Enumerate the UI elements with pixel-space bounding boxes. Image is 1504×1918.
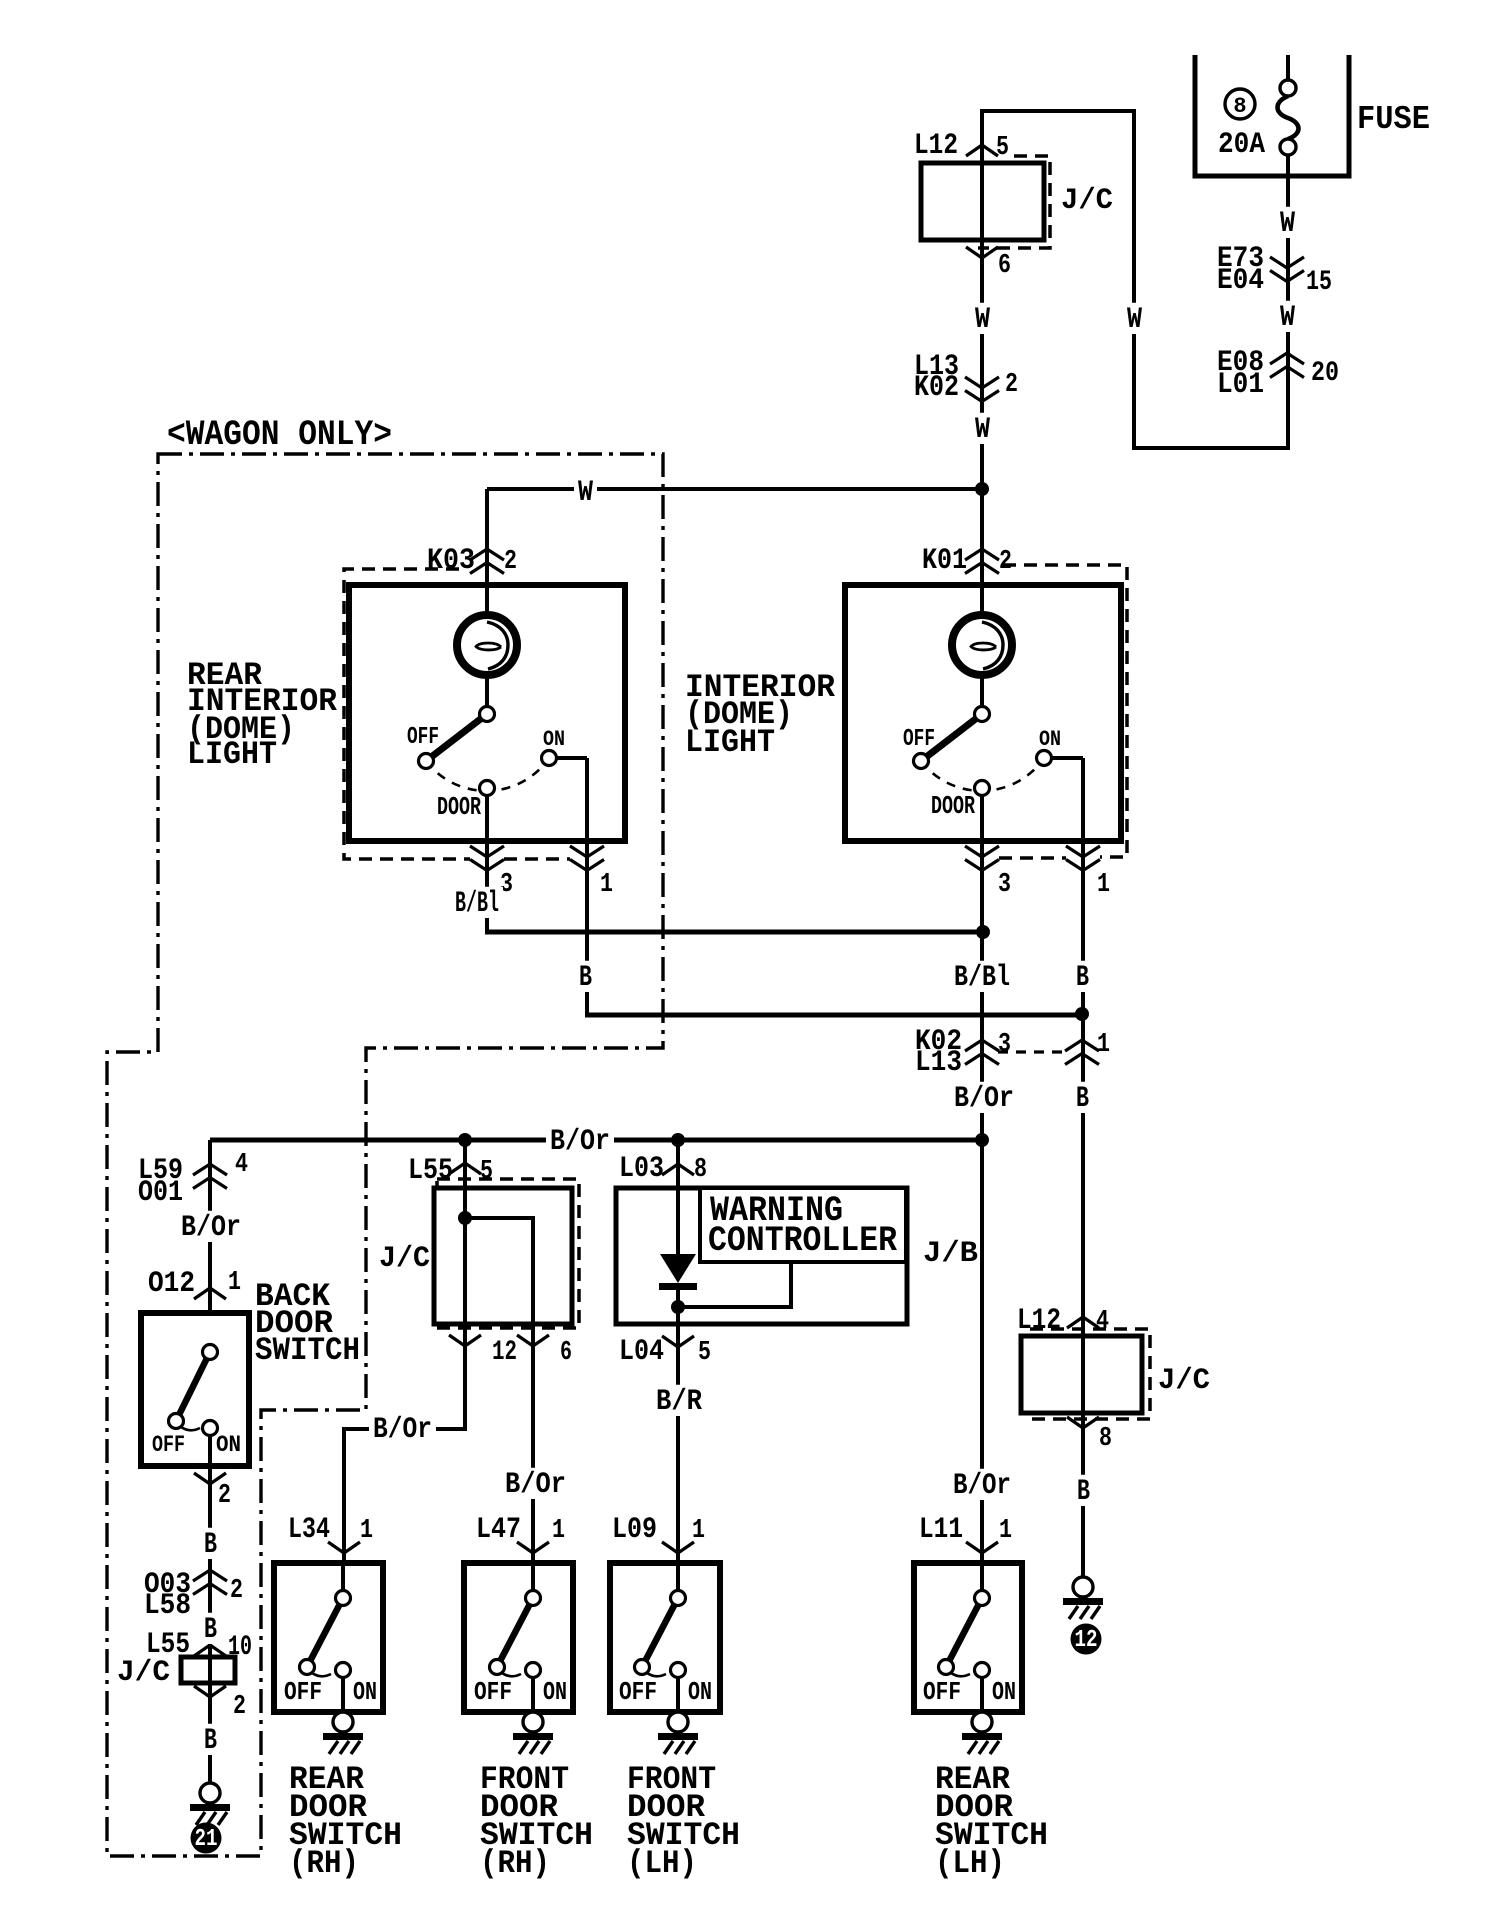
wire L55 branch drop <box>463 1140 467 1324</box>
node: B/Or junction at L55 <box>458 1133 472 1147</box>
svg-text:OFF: OFF <box>407 724 439 751</box>
wire L55 pin12 to L34 <box>344 1324 465 1563</box>
switch inside front door switch LH <box>642 1598 678 1667</box>
wire L03 branch drop <box>676 1140 680 1256</box>
wire label W (fuse lower) <box>1276 301 1299 332</box>
svg-text:2: 2 <box>233 1692 246 1722</box>
svg-text:(RH): (RH) <box>289 1845 359 1882</box>
svg-text:2: 2 <box>1005 370 1018 400</box>
svg-text:CONTROLLER: CONTROLLER <box>708 1221 897 1261</box>
svg-text:1: 1 <box>552 1516 565 1546</box>
svg-text:ON: ON <box>543 727 565 752</box>
J/C junction box (right, L12) <box>1021 1336 1142 1413</box>
connector L04 pin 5 chevron <box>662 1336 694 1347</box>
wire diode to L09 <box>676 1283 680 1563</box>
svg-text:ON: ON <box>216 1432 241 1458</box>
svg-text:3: 3 <box>998 870 1011 900</box>
svg-text:FUSE: FUSE <box>1357 101 1430 138</box>
switch inside K01 (OFF/ON/DOOR) <box>921 758 1044 791</box>
svg-text:LIGHT: LIGHT <box>187 736 277 773</box>
wagon-only dash-dot boundary <box>107 454 663 1856</box>
svg-text:1: 1 <box>600 870 613 900</box>
wire label B/Or (bus) <box>546 1125 614 1156</box>
svg-text:8: 8 <box>694 1155 707 1185</box>
wire label B (K03 pin1) <box>575 961 596 992</box>
wire pin1 K03 down <box>585 758 589 1017</box>
rear door switch LH box <box>914 1563 1022 1712</box>
svg-text:B: B <box>204 1528 217 1562</box>
svg-text:B/R: B/R <box>656 1385 702 1419</box>
svg-text:L11: L11 <box>919 1513 963 1547</box>
svg-text:OFF: OFF <box>923 1677 961 1707</box>
svg-text:4: 4 <box>235 1150 248 1180</box>
svg-text:L03: L03 <box>619 1152 664 1186</box>
svg-text:L09: L09 <box>612 1513 657 1547</box>
wire label B <box>1072 1082 1093 1113</box>
wire label W (right drop) <box>1123 303 1146 334</box>
wire bulb K03 to switch <box>485 676 489 710</box>
ground (rear door switch RH) <box>333 1712 353 1732</box>
svg-text:1: 1 <box>228 1268 241 1298</box>
svg-text:J/C: J/C <box>379 1242 430 1276</box>
svg-text:OFF: OFF <box>152 1432 185 1458</box>
connector L12 pin 5 chevron <box>966 145 998 156</box>
svg-text:B/Or: B/Or <box>550 1125 610 1159</box>
wire label B/Bl (K03) <box>451 887 503 918</box>
svg-text:L58: L58 <box>144 1589 191 1623</box>
wire B right vertical to ground 12 <box>1081 758 1085 1577</box>
svg-text:2: 2 <box>504 547 517 577</box>
front door switch LH box <box>610 1563 720 1712</box>
switch inside rear door switch LH <box>946 1598 982 1667</box>
wire W branch to K03 <box>487 487 984 491</box>
svg-text:W: W <box>975 413 990 447</box>
wire B/Or bus <box>210 1138 982 1143</box>
wire label B/Or <box>950 1082 1018 1113</box>
fuse number circle 8 <box>1225 89 1255 119</box>
svg-text:J/C: J/C <box>117 1656 170 1690</box>
svg-text:L01: L01 <box>1217 368 1264 402</box>
svg-text:O12: O12 <box>148 1267 195 1301</box>
connector L55 pin 2 chevron <box>194 1686 226 1697</box>
wire label B/Bl (K01) <box>950 961 1014 992</box>
svg-text:W: W <box>1280 301 1295 335</box>
svg-text:1: 1 <box>360 1516 373 1546</box>
connector K01 pin3-pin1 dashed link <box>999 856 1066 860</box>
node: B/Or junction at L03 <box>671 1133 685 1147</box>
svg-text:20: 20 <box>1311 358 1339 389</box>
svg-text:B: B <box>1076 1082 1089 1116</box>
wire fuse top stub <box>1286 55 1290 80</box>
node: junction inside L55 J/C <box>458 1211 472 1225</box>
svg-text:W: W <box>975 303 990 337</box>
connector K02/L13 pin 1 chevron <box>1065 1040 1099 1051</box>
fuse box outline <box>1195 55 1349 176</box>
svg-text:21: 21 <box>195 1826 218 1853</box>
back door switch box O12 <box>141 1313 249 1466</box>
wire label B (2) <box>200 1613 221 1644</box>
J/B warning controller outer box <box>616 1188 907 1324</box>
connector L11 pin 1 chevron <box>966 1542 998 1553</box>
svg-text:B/Or: B/Or <box>953 1469 1011 1503</box>
svg-text:15: 15 <box>1306 267 1332 298</box>
svg-text:ON: ON <box>1039 727 1061 752</box>
svg-text:(RH): (RH) <box>480 1845 550 1882</box>
connector L55 pin 6 chevron <box>517 1335 549 1346</box>
wire label B (1) <box>200 1528 221 1559</box>
wire label W <box>971 303 994 334</box>
wire K03 ON contact to pin 1 <box>549 756 587 760</box>
connector L55 pin 5 chevron <box>449 1163 481 1174</box>
J/C junction box (L55) <box>434 1188 572 1324</box>
connector K03 pin 3 chevron <box>470 846 504 857</box>
connector K01 dashed outline <box>1003 565 1127 857</box>
wire B/Bl horizontal <box>485 930 983 935</box>
wire label W (fuse top) <box>1276 207 1299 238</box>
wire K01 ON contact to pin 1 <box>1044 756 1083 760</box>
svg-text:OFF: OFF <box>619 1677 657 1707</box>
wire rear door switch RH internals top <box>341 1563 345 1594</box>
svg-text:1: 1 <box>1097 1030 1110 1060</box>
wire label B/Or (L47) <box>501 1468 570 1499</box>
wire front door switch RH internals top <box>531 1563 535 1594</box>
connector O03/L58 pin 2 chevron <box>193 1570 227 1581</box>
svg-text:8: 8 <box>1099 1424 1112 1454</box>
interior dome light box K01 <box>845 585 1121 841</box>
diode inside warning controller <box>660 1254 696 1283</box>
svg-text:(LH): (LH) <box>627 1845 697 1882</box>
svg-text:L12: L12 <box>914 129 958 163</box>
node: B/Bl junction <box>976 925 990 939</box>
connector L55 pin 10 chevron <box>194 1645 226 1656</box>
svg-text:6: 6 <box>998 251 1011 281</box>
wire warning controller internal <box>678 1264 791 1307</box>
svg-text:DOOR: DOOR <box>931 791 975 821</box>
connector K03 pin 1 chevron <box>570 846 604 857</box>
wire front door switch LH to ground <box>676 1674 680 1712</box>
svg-text:LIGHT: LIGHT <box>685 724 775 761</box>
rear interior dome light box K03 <box>349 585 625 841</box>
switch inside back door switch O12 <box>176 1352 210 1421</box>
svg-text:K01: K01 <box>922 544 967 578</box>
svg-text:W: W <box>1280 207 1295 241</box>
svg-text:ON: ON <box>688 1677 712 1707</box>
node: B junction right <box>1075 1007 1089 1021</box>
svg-text:DOOR: DOOR <box>437 792 481 822</box>
wire label B (K01 pin1) <box>1072 961 1093 992</box>
front door switch RH box <box>464 1563 573 1712</box>
svg-text:12: 12 <box>1075 1627 1098 1654</box>
svg-text:SWITCH: SWITCH <box>255 1332 360 1369</box>
connector L47 pin 1 chevron <box>517 1542 549 1553</box>
svg-text:B/Or: B/Or <box>181 1211 241 1245</box>
svg-text:4: 4 <box>1096 1307 1109 1337</box>
svg-text:B: B <box>204 1613 217 1647</box>
svg-text:L13: L13 <box>915 1046 962 1080</box>
svg-text:2: 2 <box>999 547 1012 577</box>
svg-text:J/C: J/C <box>1061 184 1113 218</box>
svg-text:L04: L04 <box>619 1335 664 1369</box>
wire label B/Or (L11) <box>949 1469 1015 1500</box>
wire label B/Or (L34) <box>369 1413 436 1444</box>
wire front door switch LH internals top <box>676 1563 680 1594</box>
connector K03 pin3-pin1 dashed link <box>504 857 570 861</box>
svg-text:1: 1 <box>692 1516 705 1546</box>
connector K01 pin 2 chevron <box>965 549 999 560</box>
svg-text:E04: E04 <box>1217 264 1264 298</box>
ground point 21 <box>200 1783 220 1803</box>
connector L12 pin 4 chevron (right) <box>1067 1317 1099 1328</box>
ground (front door switch RH) <box>523 1712 543 1732</box>
wire W lower horizontal to fuse branch <box>1132 446 1288 450</box>
wire L55 pin6 to L47 <box>531 1324 535 1563</box>
svg-text:(LH): (LH) <box>935 1845 1005 1882</box>
connector K02/L13 pin 3 chevron <box>965 1040 999 1051</box>
svg-text:L34: L34 <box>288 1513 330 1547</box>
svg-text:2: 2 <box>230 1576 243 1606</box>
junction connector L55 dashed outline <box>437 1179 579 1328</box>
svg-text:5: 5 <box>480 1157 493 1187</box>
wire K03 door contact down <box>485 792 489 934</box>
wire W right vertical <box>1132 109 1136 448</box>
node: B/Or junction at K01 drop <box>975 1133 989 1147</box>
node: junction below diode <box>671 1300 685 1314</box>
wire rear door switch LH to ground <box>980 1674 984 1712</box>
svg-text:B: B <box>1076 961 1089 995</box>
svg-text:ON: ON <box>353 1677 377 1707</box>
wire label W <box>971 413 994 444</box>
wire label B (3) <box>200 1724 221 1755</box>
svg-text:L47: L47 <box>476 1513 521 1547</box>
warning controller inner label box <box>700 1188 906 1262</box>
svg-text:J/C: J/C <box>1158 1364 1210 1398</box>
svg-text:B/Or: B/Or <box>954 1082 1014 1116</box>
connector L34 pin 1 chevron <box>328 1542 360 1553</box>
ground (front door switch LH) <box>668 1712 688 1732</box>
wire back-door switch to ground 21 <box>208 1435 212 1783</box>
wire W main drop through L12 J/C <box>980 109 984 626</box>
wire label W (branch) <box>574 476 597 507</box>
connector L13/K02 pin 2 chevron <box>965 377 999 388</box>
svg-text:6: 6 <box>560 1338 572 1368</box>
svg-text:OFF: OFF <box>284 1677 322 1707</box>
ground point 12 <box>1073 1577 1093 1597</box>
lamp: rear interior dome light bulb <box>457 615 517 675</box>
connector K01 pin 1 chevron <box>1066 846 1100 857</box>
svg-text:W: W <box>578 476 593 510</box>
svg-text:5: 5 <box>698 1338 711 1368</box>
svg-text:ON: ON <box>992 1677 1016 1707</box>
connector E73/E04 pin 15 chevron <box>1270 257 1304 268</box>
svg-text:ON: ON <box>543 1677 567 1707</box>
svg-text:3: 3 <box>998 1030 1011 1060</box>
svg-text:10: 10 <box>228 1632 252 1663</box>
node: W junction above K01 <box>975 482 989 496</box>
svg-text:B: B <box>579 961 592 995</box>
connector L12 pin 6 chevron <box>966 247 998 258</box>
connector L03 pin 8 chevron <box>662 1164 694 1175</box>
wire rear door switch RH to ground <box>341 1674 345 1712</box>
svg-text:O01: O01 <box>138 1176 183 1210</box>
connector L09 pin 1 chevron <box>662 1542 694 1553</box>
svg-text:<WAGON ONLY>: <WAGON ONLY> <box>167 415 392 455</box>
wire K01 door contact down to door switches <box>980 792 984 1563</box>
svg-text:L55: L55 <box>408 1154 453 1188</box>
connector K01 pin 3 chevron <box>965 846 999 857</box>
switch inside rear door switch RH <box>307 1598 343 1667</box>
wire K03 drop <box>485 489 489 626</box>
svg-text:B/Bl: B/Bl <box>455 887 499 921</box>
svg-text:1: 1 <box>1097 870 1110 900</box>
junction connector L12 dashed outline (right) <box>1030 1329 1150 1419</box>
svg-text:B: B <box>204 1724 217 1758</box>
connector K03 pin 2 chevron <box>470 549 504 560</box>
svg-text:K02: K02 <box>914 371 959 405</box>
wire fuse to junction <box>1286 154 1290 450</box>
wire label B/R <box>652 1385 706 1416</box>
svg-text:OFF: OFF <box>474 1677 512 1707</box>
svg-text:5: 5 <box>996 133 1009 163</box>
junction connector L12 dashed outline (top) <box>978 156 1050 248</box>
connector L59/O01 pin 4 chevron <box>193 1164 227 1175</box>
svg-text:12: 12 <box>492 1337 517 1368</box>
wire L55 internal branch <box>465 1218 533 1324</box>
wire label B (right) <box>1073 1475 1094 1506</box>
connector L55 pin 12 chevron <box>449 1335 481 1346</box>
J/C junction box (top, L12) <box>921 163 1044 240</box>
connector O12 pin 2 chevron <box>194 1473 226 1484</box>
svg-text:OFF: OFF <box>903 726 935 753</box>
lamp: interior dome light bulb <box>952 615 1012 675</box>
connector E08/L01 pin 20 chevron <box>1270 353 1304 364</box>
wire back-door branch vertical <box>208 1140 212 1313</box>
connector K03 dashed outline <box>344 569 470 859</box>
wire rear door switch LH internals top <box>980 1563 984 1594</box>
fuse element and terminals <box>1280 80 1296 96</box>
svg-text:J/B: J/B <box>923 1237 978 1271</box>
wire front door switch RH to ground <box>531 1674 535 1712</box>
svg-text:8: 8 <box>1233 94 1246 119</box>
connector L12 pin 8 chevron (right) <box>1067 1417 1099 1428</box>
switch inside front door switch RH <box>497 1598 533 1667</box>
svg-text:20A: 20A <box>1218 128 1265 162</box>
rear door switch RH box <box>274 1563 383 1712</box>
connector O12 pin 1 chevron <box>194 1288 226 1299</box>
wire B horizontal <box>585 1013 1082 1018</box>
wire bulb K01 to switch <box>980 676 984 710</box>
svg-text:L12: L12 <box>1017 1304 1061 1338</box>
svg-text:B: B <box>1077 1475 1090 1509</box>
svg-text:B/Bl: B/Bl <box>954 961 1010 995</box>
svg-text:W: W <box>1127 303 1142 337</box>
ground (rear door switch LH) <box>972 1712 992 1732</box>
svg-text:1: 1 <box>999 1516 1012 1546</box>
svg-text:B/Or: B/Or <box>505 1468 566 1502</box>
connector K02/L13 dashed link <box>998 1050 1066 1053</box>
switch inside K03 (OFF/ON/DOOR) <box>426 758 549 791</box>
svg-text:2: 2 <box>218 1481 231 1511</box>
svg-text:K03: K03 <box>427 544 475 578</box>
wire W top horizontal <box>982 109 1134 113</box>
svg-text:B/Or: B/Or <box>373 1413 432 1447</box>
wire label B/Or (back door) <box>177 1211 245 1242</box>
J/C junction box (small, L55) <box>181 1657 235 1683</box>
